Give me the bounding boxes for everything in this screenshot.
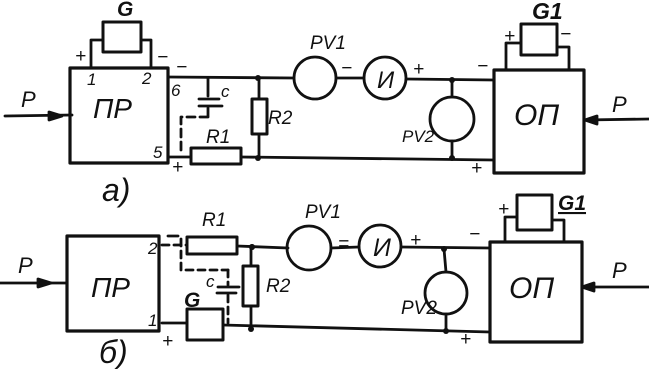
svg-text:ОП: ОП: [509, 272, 554, 305]
svg-text:PV2: PV2: [401, 298, 437, 319]
svg-text:+: +: [162, 331, 173, 352]
svg-text:=: =: [338, 234, 349, 255]
svg-text:R2: R2: [268, 108, 293, 129]
svg-text:P: P: [21, 87, 36, 112]
svg-text:R1: R1: [206, 127, 230, 148]
svg-text:+: +: [410, 230, 421, 251]
svg-text:+: +: [413, 59, 424, 80]
svg-text:+: +: [75, 46, 86, 67]
svg-text:ОП: ОП: [514, 99, 559, 132]
svg-text:2: 2: [147, 239, 158, 258]
svg-text:R2: R2: [266, 276, 291, 297]
svg-text:6: 6: [171, 81, 181, 100]
svg-text:5: 5: [153, 143, 163, 162]
svg-text:G: G: [184, 289, 200, 312]
svg-text:PV1: PV1: [310, 33, 346, 54]
svg-text:−: −: [560, 24, 571, 45]
svg-text:R1: R1: [202, 210, 226, 231]
svg-text:−: −: [477, 56, 488, 77]
svg-text:−: −: [469, 224, 480, 245]
svg-text:−: −: [176, 57, 187, 78]
svg-text:PV1: PV1: [305, 202, 341, 223]
svg-text:PV2: PV2: [402, 127, 435, 146]
svg-text:1: 1: [148, 311, 157, 330]
svg-text:ПР: ПР: [93, 93, 132, 124]
svg-text:+: +: [498, 199, 509, 220]
svg-text:1: 1: [87, 70, 96, 89]
svg-text:−: −: [157, 47, 168, 68]
svg-text:2: 2: [141, 69, 152, 88]
svg-text:+: +: [172, 157, 183, 178]
svg-text:c: c: [221, 82, 230, 101]
svg-text:б): б): [99, 334, 128, 369]
svg-text:P: P: [612, 92, 627, 117]
svg-text:И: И: [373, 234, 391, 262]
svg-text:P: P: [612, 258, 627, 283]
svg-text:+: +: [460, 329, 471, 350]
svg-text:G1: G1: [558, 192, 586, 215]
svg-text:+: +: [504, 26, 515, 47]
svg-text:G: G: [117, 0, 133, 21]
svg-text:P: P: [18, 253, 33, 278]
svg-text:а): а): [102, 172, 130, 208]
svg-text:−: −: [341, 58, 352, 79]
svg-text:G1: G1: [532, 0, 563, 24]
svg-text:c: c: [206, 272, 215, 291]
svg-text:+: +: [471, 158, 482, 179]
svg-text:ПР: ПР: [91, 272, 130, 303]
svg-text:И: И: [377, 67, 395, 94]
